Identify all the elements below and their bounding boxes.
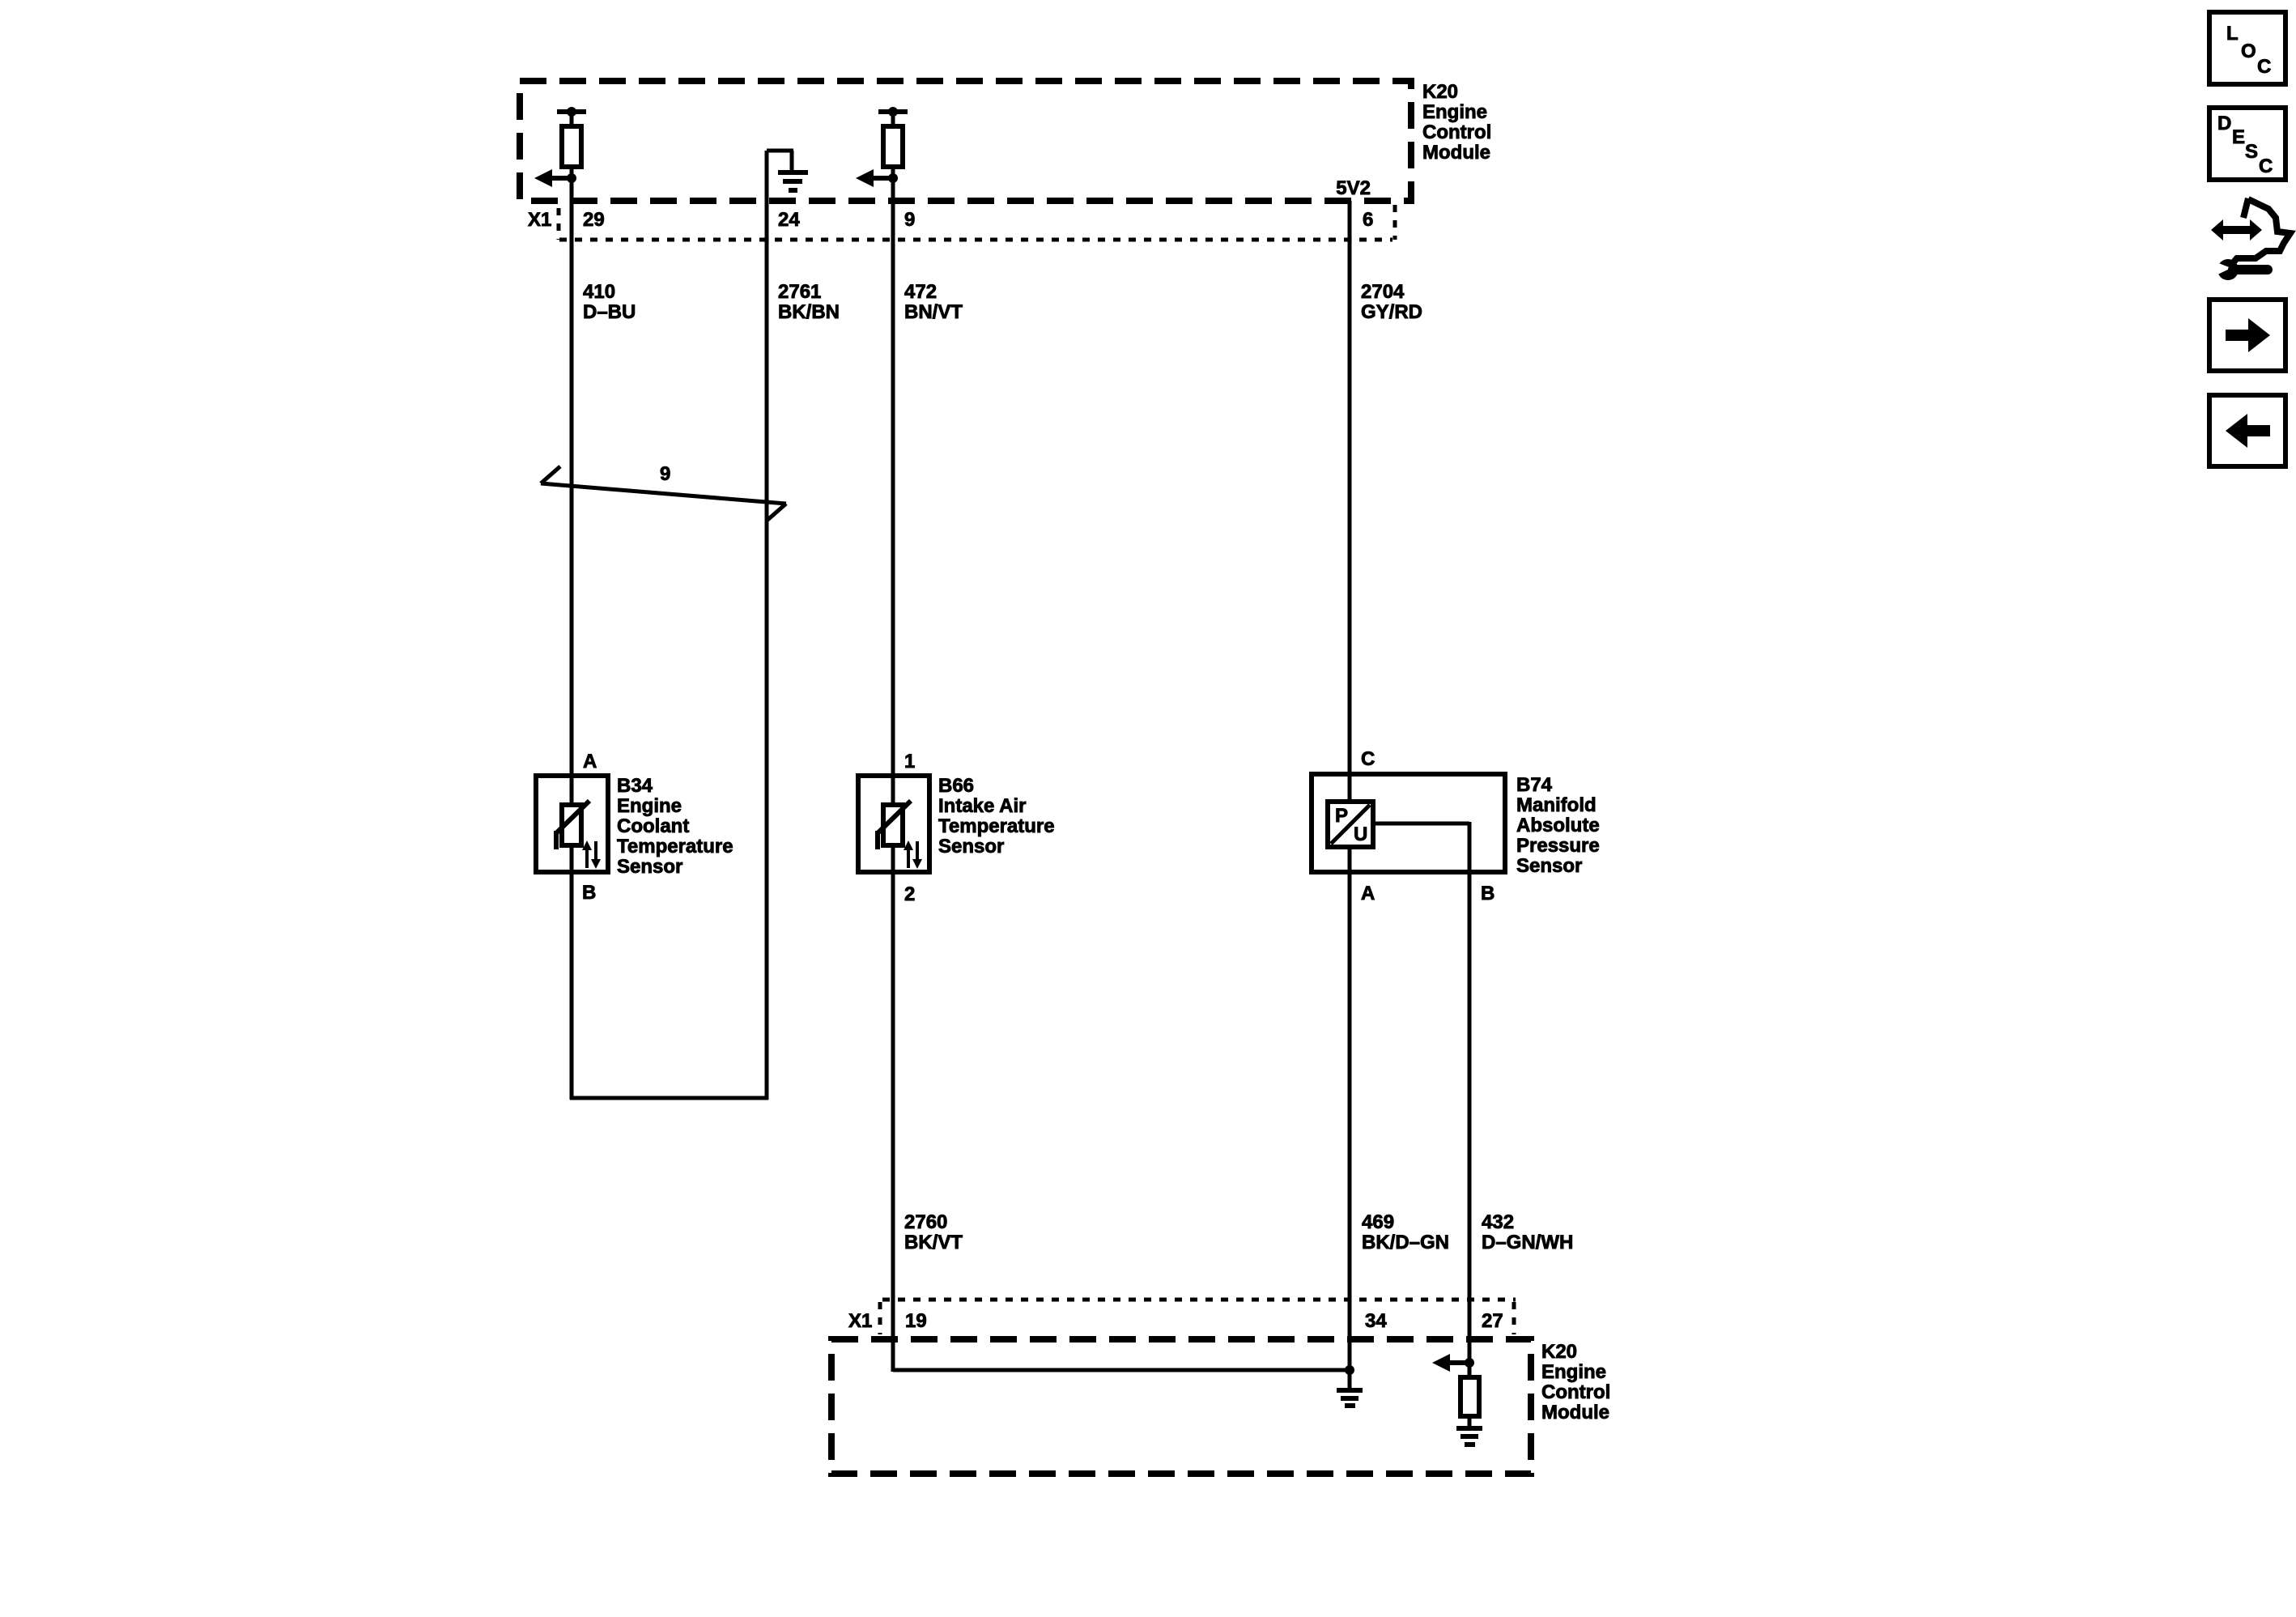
- svg-text:Absolute: Absolute: [1516, 815, 1600, 836]
- B74 label block: [1516, 774, 1600, 877]
- wire 410 D-BU (pin 29 to B34 A): [570, 188, 574, 806]
- wire 2761 label: [778, 281, 840, 323]
- svg-text:9: 9: [660, 463, 670, 485]
- wire 469 BK/D-GN (B74 A down to pin 34): [1348, 872, 1352, 1370]
- svg-text:Engine: Engine: [1422, 101, 1487, 123]
- svg-text:24: 24: [778, 209, 800, 231]
- svg-text:E: E: [2232, 126, 2245, 148]
- B66 label block: [938, 775, 1055, 857]
- svg-text:BK/BN: BK/BN: [778, 301, 840, 323]
- LOC nav icon: [2209, 12, 2285, 84]
- ECM module box K20 (top): [520, 81, 1411, 201]
- svg-text:5V2: 5V2: [1336, 177, 1371, 199]
- svg-text:34: 34: [1365, 1310, 1387, 1332]
- svg-text:K20: K20: [1422, 81, 1458, 103]
- svg-text:Module: Module: [1422, 142, 1490, 164]
- resistor (ECT pull-up) inside ECM on wire 410: [557, 107, 586, 188]
- wire 2760 label: [904, 1211, 963, 1253]
- sensor B34 Engine Coolant Temperature Sensor: [536, 776, 608, 872]
- svg-text:S: S: [2245, 141, 2258, 163]
- svg-text:2760: 2760: [904, 1211, 947, 1233]
- svg-text:GY/RD: GY/RD: [1361, 301, 1422, 323]
- svg-text:Sensor: Sensor: [617, 856, 682, 878]
- svg-text:432: 432: [1482, 1211, 1514, 1233]
- svg-text:Intake Air: Intake Air: [938, 795, 1026, 817]
- svg-text:C: C: [1361, 748, 1375, 770]
- svg-text:27: 27: [1482, 1310, 1503, 1332]
- svg-text:A: A: [583, 751, 597, 772]
- svg-text:Pressure: Pressure: [1516, 835, 1600, 857]
- wire 432 D-GN/WH (B74 B down to pin 27): [1468, 872, 1472, 1363]
- node: signal tap arrow on wire 410: [534, 169, 576, 187]
- B34 label block: [617, 775, 733, 878]
- svg-text:A: A: [1361, 883, 1375, 904]
- wire 469 label: [1362, 1211, 1449, 1253]
- node: signal tap arrow on wire 432 (pin 27): [1432, 1354, 1474, 1372]
- svg-text:Coolant: Coolant: [617, 815, 689, 837]
- svg-text:X1: X1: [528, 209, 551, 231]
- svg-text:B: B: [1481, 883, 1495, 904]
- svg-text:BN/VT: BN/VT: [904, 301, 963, 323]
- wire 432 label: [1482, 1211, 1573, 1253]
- svg-text:C: C: [2259, 155, 2273, 177]
- svg-text:6: 6: [1363, 209, 1373, 231]
- svg-text:1: 1: [904, 751, 915, 772]
- ground (ECM internal, pins 19/34): [1337, 1390, 1363, 1406]
- svg-text:P: P: [1335, 805, 1348, 827]
- svg-text:19: 19: [905, 1310, 927, 1332]
- DESC nav icon: [2209, 108, 2285, 180]
- svg-text:2704: 2704: [1361, 281, 1405, 303]
- wire 410 label: [583, 281, 636, 323]
- svg-text:L: L: [2226, 23, 2239, 45]
- svg-text:2: 2: [904, 883, 915, 905]
- wire 2761 BK/BN (pin 24 down): [765, 151, 769, 1100]
- wire 2704 GY/RD (pin 6 to B74 C): [1348, 201, 1352, 803]
- node: signal tap arrow on wire 472: [856, 169, 898, 187]
- svg-text:9: 9: [904, 209, 915, 231]
- svg-text:Module: Module: [1541, 1402, 1609, 1423]
- thermistor element (B66): [878, 801, 922, 869]
- connector X1 strip (top): [528, 205, 1395, 240]
- svg-text:B34: B34: [617, 775, 653, 797]
- svg-text:B66: B66: [938, 775, 974, 797]
- svg-text:Temperature: Temperature: [938, 815, 1055, 837]
- svg-text:C: C: [2257, 56, 2271, 78]
- ground (ECM internal, pin 24 net): [767, 151, 808, 190]
- svg-text:410: 410: [583, 281, 615, 303]
- connector X1 strip (bottom): [848, 1300, 1516, 1334]
- svg-text:Control: Control: [1422, 121, 1491, 143]
- svg-text:BK/D–GN: BK/D–GN: [1362, 1232, 1449, 1253]
- svg-text:BK/VT: BK/VT: [904, 1232, 963, 1253]
- net 5V2 label: [1336, 177, 1371, 199]
- thermistor element (B34): [556, 801, 601, 869]
- svg-text:O: O: [2241, 40, 2256, 62]
- wire from P/U to pin B (B74 internal): [1373, 822, 1469, 872]
- K20 ECM label (top): [1422, 81, 1491, 164]
- svg-text:Engine: Engine: [617, 795, 682, 817]
- svg-text:Control: Control: [1541, 1381, 1610, 1403]
- back nav icon (left arrow): [2209, 395, 2285, 466]
- svg-text:469: 469: [1362, 1211, 1394, 1233]
- svg-text:B74: B74: [1516, 774, 1553, 796]
- svg-text:29: 29: [583, 209, 605, 231]
- svg-text:2761: 2761: [778, 281, 821, 303]
- harness bundle marker (9 wires) across 410 and 2761: [541, 463, 786, 521]
- sensor B74 Manifold Absolute Pressure Sensor: [1312, 774, 1505, 872]
- svg-text:Engine: Engine: [1541, 1361, 1606, 1383]
- svg-text:Sensor: Sensor: [1516, 855, 1582, 877]
- connector service tool icon (arrows + wrench): [2211, 198, 2290, 280]
- wire 2704 through P/U to pin A (B74 internal): [1348, 847, 1352, 872]
- sensor B66 Intake Air Temperature Sensor: [858, 776, 929, 872]
- svg-text:Sensor: Sensor: [938, 836, 1004, 857]
- svg-text:D–GN/WH: D–GN/WH: [1482, 1232, 1573, 1253]
- P/U transducer box (B74): [1328, 802, 1373, 847]
- forward nav icon (right arrow): [2209, 300, 2285, 371]
- wire B34 B loop (down, right, joins 2761): [570, 845, 768, 1100]
- wire 472 BN/VT (pin 9 to B66 1): [891, 188, 895, 806]
- svg-text:U: U: [1354, 823, 1367, 845]
- ground (ECM internal, pin 27 net): [1456, 1428, 1482, 1445]
- svg-text:D: D: [2217, 113, 2231, 134]
- svg-text:B: B: [582, 882, 596, 904]
- wire 2704 label: [1361, 281, 1422, 323]
- K20 ECM label (bottom): [1541, 1341, 1610, 1423]
- ECM module box K20 (bottom): [831, 1339, 1531, 1474]
- svg-text:Temperature: Temperature: [617, 836, 733, 857]
- svg-text:X1: X1: [848, 1310, 872, 1332]
- wire 472 label: [904, 281, 963, 323]
- svg-text:K20: K20: [1541, 1341, 1577, 1363]
- resistor (IAT pull-up) inside ECM on wire 472: [878, 107, 908, 188]
- svg-text:Manifold: Manifold: [1516, 794, 1597, 816]
- resistor (ECM internal, pin 27 net): [1461, 1363, 1479, 1427]
- svg-text:D–BU: D–BU: [583, 301, 636, 323]
- wire 2760 BK/VT (B66 2 down to pin 19): [891, 845, 895, 1372]
- internal ground bus wire (pins 19+34): [893, 1365, 1354, 1388]
- svg-text:472: 472: [904, 281, 937, 303]
